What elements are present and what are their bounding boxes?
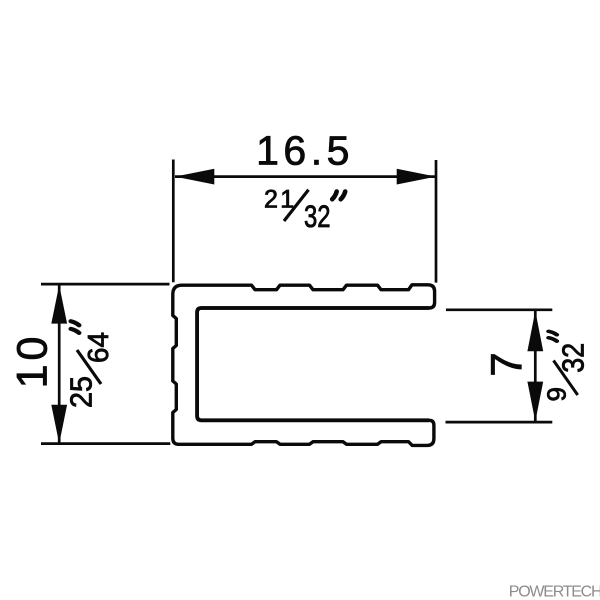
inner channel wall lines [197, 308, 429, 420]
svg-text:POWERTECH: POWERTECH [509, 584, 600, 600]
extension line, 10 dim top [41, 283, 170, 286]
arrowhead, 10 dim bottom [51, 405, 67, 444]
arrowhead, 10 dim top [51, 285, 67, 324]
U-channel extrusion profile outline with grip grooves [173, 285, 435, 446]
svg-text:9: 9 [542, 387, 572, 401]
svg-text:32: 32 [304, 198, 331, 234]
extension line, 7 dim top [446, 308, 552, 311]
arrowhead, 7 dim bottom [527, 382, 543, 422]
fraction label 25/64 inch (rotated) [65, 321, 116, 408]
fraction label 9/32 inch (rotated) [542, 331, 591, 401]
fraction label 21/32 inch [264, 186, 345, 235]
arrowhead, 16.5 dim right [397, 169, 436, 185]
extension line, 16.5 dim left [172, 160, 175, 283]
extension line, 16.5 dim right [435, 160, 438, 283]
dimension line 10 [58, 285, 61, 443]
dimension line 7 [534, 311, 537, 421]
svg-text:16.5: 16.5 [256, 127, 354, 173]
arrowhead, 7 dim top [527, 311, 543, 351]
extension line, 7 dim bottom [446, 421, 553, 424]
svg-text:10: 10 [9, 333, 57, 389]
svg-text:64: 64 [83, 332, 115, 363]
extension line, 10 dim bottom [41, 442, 170, 445]
svg-text:25: 25 [65, 376, 99, 408]
svg-text:32: 32 [557, 343, 591, 373]
svg-text:7: 7 [483, 352, 532, 376]
arrowhead, 16.5 dim left [175, 169, 214, 185]
dimension line 16.5 [175, 175, 436, 178]
